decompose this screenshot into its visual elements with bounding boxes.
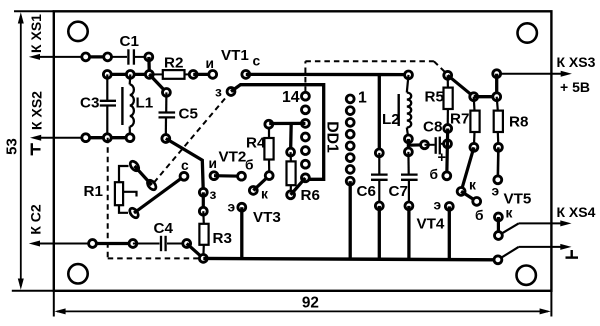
pin label з VT2 [210, 187, 217, 202]
node pad VT3 к [249, 187, 257, 195]
node oval pad R1 top [129, 160, 141, 173]
pin label з VT1 [215, 85, 222, 100]
node pad L2 bottom [405, 135, 413, 143]
label C8 [423, 119, 442, 136]
label C3 [80, 95, 99, 112]
resistor R1 trimmer [115, 166, 137, 213]
node K XS3 arrow [497, 71, 572, 77]
label R7 [450, 111, 469, 128]
node pad row3-a [82, 134, 90, 142]
node pad VT5 б [473, 198, 481, 206]
svg-text:92: 92 [302, 295, 319, 312]
svg-text:DD1: DD1 [323, 121, 340, 153]
label VT5 [504, 191, 532, 208]
node pad R8 top [493, 93, 501, 101]
node pad R5 top [444, 71, 452, 79]
node pad row3-b [103, 134, 111, 142]
node pad R3 top [199, 207, 207, 215]
wire R5 top to R7 top [448, 75, 474, 96]
wire XS2 row3 [54, 137, 133, 139]
label plus C8 [438, 150, 446, 166]
svg-text:VT4: VT4 [417, 216, 445, 233]
svg-text:К XS2: К XS2 [29, 91, 45, 130]
dimension extension line bottom-right vertical [550, 291, 552, 317]
wire VT2 з to R3 [202, 192, 205, 211]
svg-text:C5: C5 [179, 106, 199, 123]
wire C7 to bus [407, 206, 410, 260]
ground symbol left (rotated) [32, 143, 41, 155]
svg-text:VT3: VT3 [253, 209, 281, 226]
node pad VT4 э [445, 203, 453, 211]
node pad VT4 к [457, 188, 465, 196]
node K XS1 arrow [29, 54, 54, 60]
node pad R4 bottom [265, 172, 273, 180]
pin label э VT5 [492, 184, 500, 199]
mounting hole top-left [68, 22, 87, 41]
node pad XS3 [493, 70, 501, 78]
svg-text:и: и [206, 56, 214, 71]
svg-text:1: 1 [358, 90, 367, 107]
label VT4 [417, 216, 445, 233]
pin label э VT4 [434, 198, 442, 213]
capacitor C5 [159, 92, 176, 138]
label R5 [425, 89, 445, 106]
wire C2 row [54, 243, 133, 245]
wire R4 top to DD1 pin12 [269, 122, 305, 125]
pin label б VT4 [430, 167, 439, 182]
label K C2 [28, 204, 44, 235]
node pad row2-a [103, 71, 111, 79]
dimension label 92 [302, 295, 319, 312]
node pad VT2 и [210, 172, 218, 180]
node pad VT3 э [238, 203, 246, 211]
wire C6 to bus [378, 206, 381, 259]
pin label э VT3 [228, 200, 236, 215]
wire dashed jumper pin14 to R5 [305, 61, 446, 92]
node pad C5 bottom [162, 135, 170, 143]
node pad R2 right [189, 71, 197, 79]
svg-text:VT2: VT2 [219, 149, 247, 166]
svg-text:L2: L2 [382, 111, 400, 128]
wire VT3 к to R4 [253, 176, 269, 191]
wire junction to C5 [149, 74, 166, 92]
node pad R7 bottom [470, 143, 478, 151]
wire DD1 pin7 to bus [349, 181, 352, 259]
svg-text:L1: L1 [136, 95, 154, 112]
label L1 [136, 95, 154, 112]
pin label б VT5 [475, 208, 484, 223]
svg-text:К XS1: К XS1 [28, 14, 44, 53]
node pad VT2 с [180, 172, 188, 180]
label K XS2 [29, 91, 45, 130]
svg-text:и: и [209, 156, 217, 171]
pin label с VT1 [253, 54, 261, 69]
inductor L1 [122, 74, 133, 137]
capacitor C1 [128, 49, 148, 64]
wire R5 bottom through C8 node to VT4 base [445, 129, 449, 176]
op IC DD1 left pad column pins 14..8 [302, 92, 310, 181]
node pad C8 left [421, 141, 429, 149]
resistor R2 [149, 70, 193, 79]
dimension label 53 [3, 138, 20, 155]
svg-text:б: б [430, 167, 439, 182]
wire C7 junction to C8 [410, 143, 425, 147]
pin label к VT4 [469, 178, 476, 193]
mounting hole top-right [518, 23, 537, 42]
node pad VT3 б [238, 172, 246, 180]
node pad R6 bottom [287, 191, 295, 199]
label C7 [389, 183, 408, 200]
node pad VT5 к upper [495, 213, 503, 221]
resistor R7 [470, 97, 479, 148]
svg-text:R6: R6 [301, 187, 320, 204]
label K XS3 [557, 54, 596, 70]
svg-text:э: э [434, 198, 442, 213]
node K C2 arrow [29, 241, 54, 247]
wire branch to R6 top [289, 123, 293, 152]
label R8 [509, 114, 528, 131]
node pad VT1 с [242, 71, 250, 79]
svg-text:C8: C8 [423, 119, 442, 136]
resistor R3 [199, 211, 208, 258]
node K XS2 arrow [30, 135, 54, 141]
label 1 [358, 90, 367, 107]
svg-text:б: б [475, 208, 484, 223]
node pad VT2 з [199, 188, 207, 196]
wire VT2 и to VT3 б [214, 174, 242, 178]
label R4 [246, 135, 266, 152]
svg-text:К XS3: К XS3 [557, 54, 596, 70]
node pad C6 top [375, 149, 383, 157]
capacitor C6 [371, 153, 388, 206]
node pad row1-b [104, 53, 112, 61]
wire VT3 э to bus [240, 207, 243, 258]
svg-text:з: з [215, 85, 222, 100]
wire C5 to VT2 gate [166, 139, 204, 193]
wire R6 bottom to DD1 pin8 [291, 178, 306, 195]
svg-text:R1: R1 [84, 183, 104, 200]
node pad row2-b [126, 71, 134, 79]
node pad R4 top [265, 120, 273, 128]
svg-text:э: э [492, 184, 500, 199]
wire R7 top to XS3 junction [474, 95, 497, 98]
label R3 [213, 230, 232, 247]
svg-text:R8: R8 [509, 114, 528, 131]
svg-text:C4: C4 [154, 220, 174, 237]
wire drain line down to C6 [378, 75, 381, 153]
svg-text:C6: C6 [357, 183, 376, 200]
wire XS1 row [54, 56, 127, 58]
node pad C8 right [444, 140, 452, 148]
svg-text:53: 53 [3, 138, 20, 155]
node pad R8 bottom [495, 143, 503, 151]
svg-text:C1: C1 [120, 33, 140, 50]
node pad C7 top [405, 148, 413, 156]
label VT3 [253, 209, 281, 226]
dimension line 92 [54, 308, 550, 314]
label K XS4 [557, 204, 596, 220]
svg-text:+ 5В: + 5В [560, 79, 590, 95]
svg-text:К XS4: К XS4 [557, 204, 596, 220]
node pad row2-c [145, 71, 153, 79]
wire VT1 drain to L2 [246, 73, 409, 76]
svg-text:C3: C3 [80, 95, 99, 112]
pin label к VT5 [506, 206, 513, 221]
resistor R6 [287, 152, 296, 195]
label 14 [282, 89, 300, 106]
svg-text:R2: R2 [164, 55, 183, 72]
wire dashed shield horizontal [108, 257, 198, 259]
node pad R6 top [287, 148, 295, 156]
label C4 [154, 220, 174, 237]
node pad VT5 э [494, 176, 502, 184]
dimension line 53 [18, 12, 24, 290]
node pad L2 top [405, 71, 413, 79]
wire VT4 э to bus [448, 206, 451, 259]
wire R8 bottom to VT5 э [496, 147, 499, 180]
wire dashed jumper R1 wiper to VT1 gate [154, 96, 228, 183]
label VT2 [219, 149, 247, 166]
node pad row1-c [145, 53, 153, 61]
node pad C5 top [163, 89, 171, 97]
svg-text:R3: R3 [213, 230, 232, 247]
node pad C6 bottom [375, 202, 383, 210]
svg-text:VT1: VT1 [221, 47, 249, 64]
capacitor C4 [133, 236, 187, 251]
node pad bus right [494, 256, 502, 264]
svg-text:с: с [181, 158, 189, 173]
wire C4 to bus corner [187, 244, 204, 259]
wire VT1 gate to DD1 pin8 [231, 85, 324, 180]
resistor R8 [494, 97, 503, 148]
pin label б VT3 [245, 158, 254, 173]
svg-text:К C2: К C2 [28, 204, 44, 235]
resistor R5 [444, 75, 453, 128]
wire XS3 pad down [495, 74, 498, 97]
mounting hole bottom-left [68, 264, 87, 283]
svg-text:к: к [261, 187, 268, 202]
wire VT4 к to VT5 б [461, 191, 477, 201]
node pad C2-b [129, 240, 137, 248]
op IC DD1 right pad column pins 1..7 [346, 95, 354, 185]
mounting hole bottom-right [517, 266, 536, 285]
wire R1 bottom to VT2 drain [134, 176, 184, 213]
svg-text:к: к [469, 178, 476, 193]
inductor L2 [399, 75, 411, 139]
svg-text:C7: C7 [389, 183, 408, 200]
svg-text:к: к [506, 206, 513, 221]
svg-text:б: б [245, 158, 254, 173]
svg-text:14: 14 [282, 89, 300, 106]
svg-text:R4: R4 [246, 135, 266, 152]
svg-text:с: с [253, 54, 261, 69]
svg-text:э: э [228, 200, 236, 215]
wire VT5 к pads [497, 217, 500, 236]
svg-text:R5: R5 [425, 89, 445, 106]
dimension extension line bottom-left [12, 290, 54, 292]
ground symbol bottom-right [566, 250, 579, 258]
pin label и VT1 [206, 56, 214, 71]
label C5 [179, 106, 199, 123]
node pad C2-a [89, 240, 97, 248]
label VT1 [221, 47, 249, 64]
label DD1 [323, 121, 340, 153]
node pad VT4 б [443, 172, 451, 180]
label R1 [84, 183, 104, 200]
pin label к VT3 [261, 187, 268, 202]
node pad R5 bottom [444, 125, 452, 133]
node oval pad R1 bottom [128, 207, 140, 220]
svg-text:з: з [210, 187, 217, 202]
capacitor C7 [401, 152, 418, 206]
wire R7 bottom to VT4 к [461, 147, 474, 191]
label C6 [357, 183, 376, 200]
node pad row1-a [82, 53, 90, 61]
label +5V [560, 79, 590, 95]
svg-text:+: + [438, 150, 446, 166]
dimension extension line bottom-left vertical [53, 291, 55, 317]
node pad VT1 з [227, 88, 235, 96]
node K XS4 arrow [498, 220, 571, 235]
wire row1 to row2 [147, 57, 151, 75]
node pad bus left [199, 255, 207, 263]
node pad C4 right [183, 240, 191, 248]
pin label и VT2 [209, 156, 217, 171]
wire R2 to VT1 source [193, 73, 213, 76]
dimension extension line top-left [14, 10, 54, 12]
label R6 [301, 187, 320, 204]
capacitor C3 [100, 74, 116, 137]
node pad VT1 и [209, 71, 217, 79]
wire XS2 row2 [107, 73, 149, 76]
node pad row3-c [126, 134, 134, 142]
node pad R7 top [470, 93, 478, 101]
pin label с VT2 [181, 158, 189, 173]
label R2 [164, 55, 183, 72]
label K XS1 [28, 14, 44, 53]
node pad C7 bottom [405, 202, 413, 210]
node oval pad R1 middle [146, 179, 158, 192]
label C1 [120, 33, 140, 50]
resistor R4 [264, 128, 273, 171]
node pad VT5 к lower [495, 232, 503, 240]
capacitor C8 electrolytic [425, 137, 448, 155]
svg-text:R7: R7 [450, 111, 469, 128]
wire ground bus [203, 258, 498, 259]
board outline [54, 11, 552, 291]
wire R1 top to wiper pad [135, 166, 152, 185]
label L2 [382, 111, 400, 128]
wire L2 bottom to C7 top [407, 139, 410, 152]
wire dashed shield vertical [107, 138, 109, 259]
node ground arrow bottom-right [498, 244, 572, 260]
